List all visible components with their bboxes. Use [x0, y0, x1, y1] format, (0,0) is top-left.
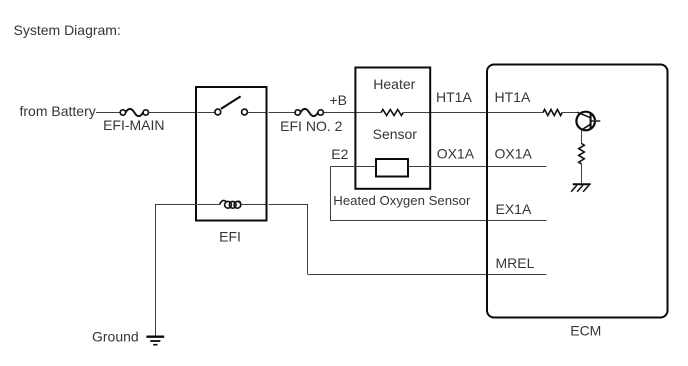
heater label [373, 76, 415, 92]
svg-text:HT1A: HT1A [436, 89, 472, 105]
svg-text:Ground: Ground [92, 329, 139, 345]
wire from battery to fuse EFI-MAIN [96, 112, 120, 114]
wire heater resistor to HT1A [403, 112, 486, 114]
svg-text:MREL: MREL [496, 255, 535, 271]
heated oxygen sensor box [355, 68, 430, 189]
fuse EFI-MAIN [103, 109, 164, 133]
svg-text:Sensor: Sensor [373, 126, 418, 142]
relay coil inductor [220, 200, 241, 208]
relay EFI box [196, 87, 267, 221]
wire relay left edge to switch contact [198, 112, 215, 114]
wire coil to relay right edge [242, 204, 266, 206]
pin MREL stub [488, 274, 547, 276]
wire ECM HT1A pin to resistor [488, 112, 543, 114]
wire resistor to transistor [562, 112, 577, 114]
wire fuse EFI-MAIN to relay EFI [149, 112, 196, 114]
resistor emitter pulldown [579, 144, 585, 164]
svg-text:OX1A: OX1A [437, 146, 475, 162]
svg-text:from Battery: from Battery [20, 103, 96, 119]
sensor element rectangle [376, 159, 408, 177]
svg-text:EFI NO. 2: EFI NO. 2 [280, 118, 342, 134]
svg-text:E2: E2 [331, 146, 348, 162]
fuse EFI NO. 2 [280, 109, 342, 134]
resistor heater element [381, 110, 403, 116]
wire E2 stub to sensor box [331, 166, 357, 168]
Ground label [92, 329, 139, 345]
svg-text:Heater: Heater [373, 76, 415, 92]
wire relay to fuse EFI NO. 2 [269, 112, 295, 114]
node E2 label [331, 146, 348, 162]
pin EX1A label inside ECM [496, 201, 532, 217]
title text "System Diagram:" [14, 22, 121, 38]
wire fuse EFI NO. 2 to +B [324, 112, 355, 114]
ground symbol chassis inside ECM [571, 184, 591, 192]
wire E2 vertical drop [330, 167, 332, 221]
pin HT1A label inside ECM [495, 89, 531, 105]
wire relay coil left lead to ground [156, 204, 198, 336]
pin OX1A label inside ECM [495, 146, 533, 162]
svg-text:+B: +B [329, 92, 347, 108]
wire +B to heater resistor [356, 112, 381, 114]
svg-text:OX1A: OX1A [495, 146, 533, 162]
sensor label [373, 126, 418, 142]
wire transistor emitter down [581, 130, 583, 144]
resistor ECM HT1A series [543, 110, 562, 116]
wire relay left edge to coil [198, 204, 221, 206]
wire relay coil right lead to MREL [269, 204, 487, 275]
wire sensor element to OX1A [408, 166, 486, 168]
svg-text:EFI-MAIN: EFI-MAIN [103, 117, 164, 133]
wire resistor to ground [581, 164, 583, 184]
svg-text:EX1A: EX1A [496, 201, 532, 217]
node from Battery label [20, 103, 96, 119]
node HT1A label outside ECM [436, 89, 472, 105]
ECM box [487, 65, 668, 318]
pin MREL label inside ECM [496, 255, 535, 271]
svg-text:Heated Oxygen Sensor: Heated Oxygen Sensor [333, 193, 471, 208]
svg-text:EFI: EFI [219, 229, 241, 245]
pin OX1A stub [488, 166, 547, 168]
svg-text:HT1A: HT1A [495, 89, 531, 105]
node OX1A label outside ECM [437, 146, 475, 162]
relay switch contact blade [221, 96, 241, 109]
wire sensor box internal left to sensor element [356, 166, 376, 168]
transistor driver [576, 112, 600, 131]
wire switch to relay right edge [248, 112, 266, 114]
ECM label [570, 323, 601, 339]
relay switch contact circles [215, 109, 248, 115]
node +B label [329, 92, 347, 108]
pin EX1A stub [488, 220, 547, 222]
wire E2 to ECM EX1A [330, 220, 486, 222]
heated oxygen sensor caption [333, 193, 471, 208]
svg-text:ECM: ECM [570, 323, 601, 339]
svg-text:System Diagram:: System Diagram: [14, 22, 121, 38]
ground symbol left [146, 337, 164, 345]
relay EFI label [219, 229, 241, 245]
